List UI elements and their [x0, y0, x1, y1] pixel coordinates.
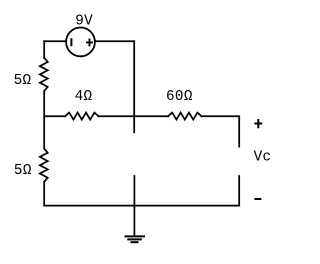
wire: middle vertical stub (source down past middle wire)	[133, 41, 135, 132]
svg-text:4Ω: 4Ω	[75, 89, 93, 105]
resistor 5Ω (top-left) zigzag	[40, 58, 48, 91]
svg-text:5Ω: 5Ω	[14, 73, 32, 89]
wire: top-right horizontal from source to middle node	[95, 40, 134, 42]
wire: right vertical upper (+ terminal lead)	[238, 116, 240, 146]
ground bar 2	[127, 238, 142, 240]
ground bar 3 (narrowest)	[131, 241, 139, 243]
ground stem	[133, 176, 135, 236]
wire: bottom horizontal	[44, 205, 239, 207]
resistor 60Ω zigzag	[168, 113, 202, 120]
wire: left vertical top lead	[43, 41, 45, 58]
wire: left vertical bottom lead	[43, 182, 45, 206]
voltage source V1 circle	[66, 28, 95, 57]
wire: middle horizontal between 4Ω and 60Ω	[99, 115, 168, 117]
svg-text:60Ω: 60Ω	[166, 89, 193, 105]
voltage source minus terminal bar	[70, 38, 72, 46]
label + (Vc plus terminal)	[254, 119, 262, 128]
ground bar 1 (widest)	[125, 235, 146, 237]
svg-text:5Ω: 5Ω	[14, 163, 32, 179]
voltage source plus sign	[86, 39, 93, 47]
wire: middle horizontal right lead	[202, 115, 240, 117]
wire: left vertical between resistors	[43, 91, 45, 149]
wire: top-left horizontal from left branch to source	[44, 40, 66, 42]
wire: right vertical lower (- terminal lead)	[238, 176, 240, 206]
resistor 4Ω zigzag	[65, 113, 99, 120]
label - (Vc minus terminal)	[254, 198, 261, 200]
wire: middle horizontal left lead	[44, 115, 65, 117]
svg-text:Vc: Vc	[254, 149, 272, 165]
resistor 5Ω (bottom-left) zigzag	[40, 149, 48, 182]
svg-text:9V: 9V	[75, 14, 93, 30]
